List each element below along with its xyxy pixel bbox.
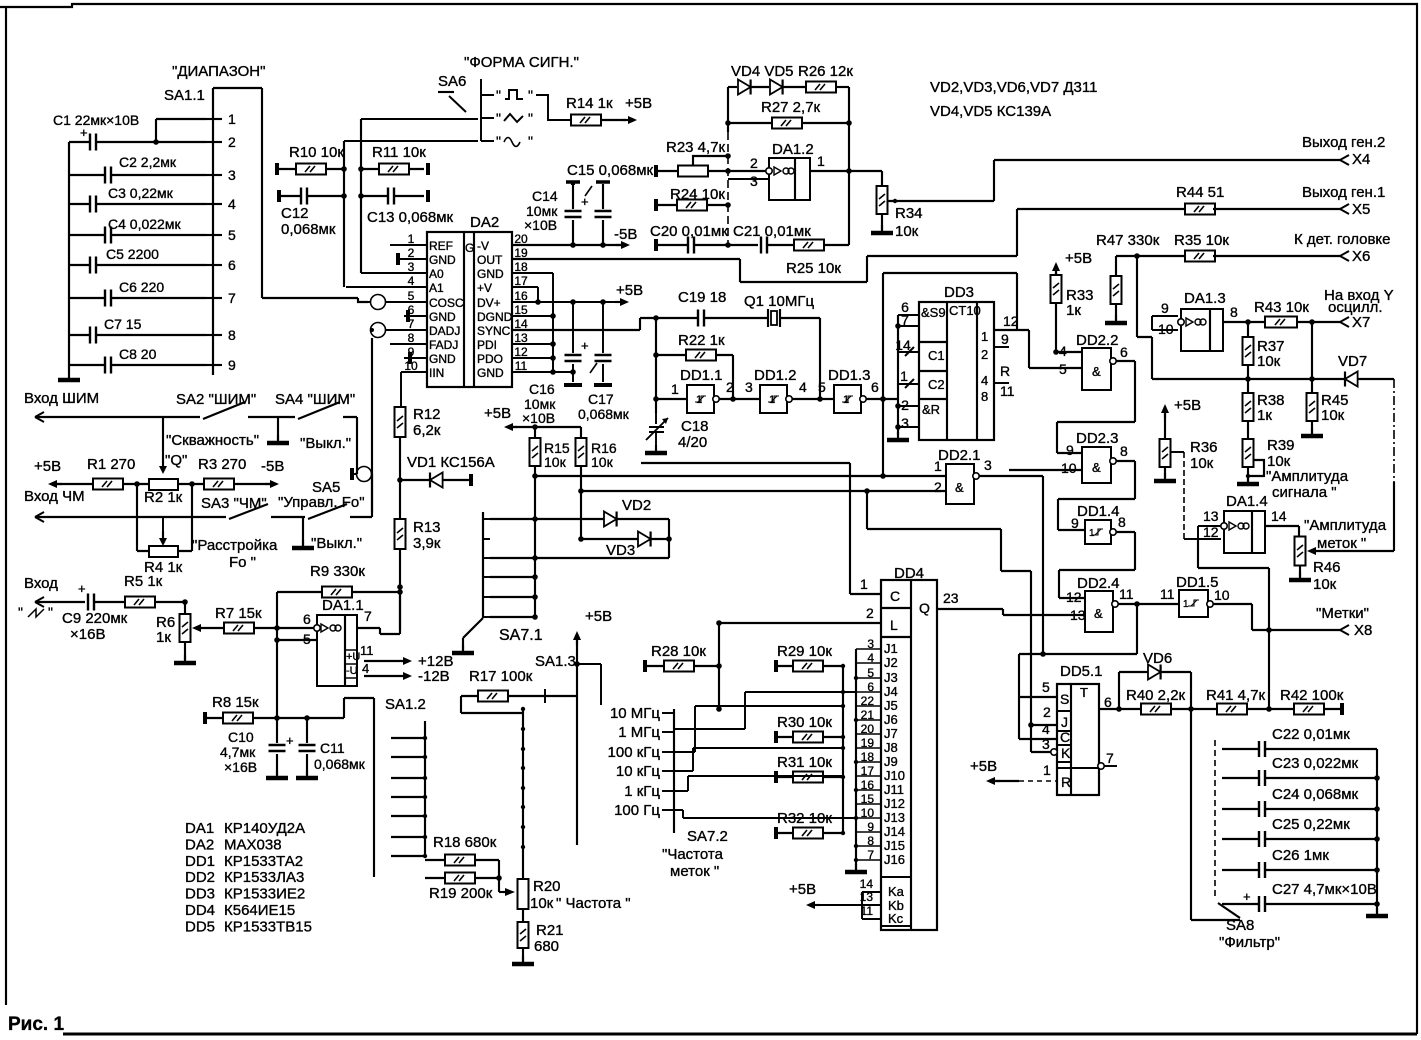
svg-text:сигнала ": сигнала " [1272, 484, 1337, 501]
svg-text:9: 9 [1001, 331, 1009, 347]
svg-text:10к: 10к [1321, 407, 1345, 424]
svg-text:4: 4 [981, 373, 988, 388]
svg-text:0,068мк: 0,068мк [281, 221, 336, 238]
svg-text:R30 10к: R30 10к [777, 714, 832, 731]
svg-text:680: 680 [534, 938, 559, 955]
wire OUT to X5 [512, 209, 1186, 282]
svg-text:10: 10 [1214, 587, 1230, 603]
svg-text:C2 2,2мк: C2 2,2мк [119, 154, 177, 170]
switch SA1.3 throw [577, 664, 601, 705]
svg-text:SA8: SA8 [1226, 917, 1254, 934]
svg-text:A0: A0 [429, 267, 444, 281]
svg-text:"Выкл.": "Выкл." [300, 435, 351, 452]
svg-text:+: + [286, 733, 294, 748]
svg-text:DD1.5: DD1.5 [1176, 574, 1219, 591]
svg-text:S: S [1060, 691, 1069, 707]
svg-text:": " [48, 604, 53, 620]
wire R18/R19 junction to R20 [498, 860, 500, 892]
svg-text:DD2.3: DD2.3 [1076, 430, 1119, 447]
svg-text:DA2: DA2 [185, 836, 214, 853]
wire rows SA7.1 [490, 577, 535, 617]
svg-text:С26 1мк: С26 1мк [1272, 847, 1329, 864]
svg-text:9: 9 [1161, 300, 1169, 316]
svg-text:+V: +V [477, 281, 492, 295]
svg-text:"Метки": "Метки" [1316, 605, 1369, 622]
svg-text:12: 12 [514, 345, 528, 359]
svg-text:1: 1 [843, 394, 849, 406]
svg-text:J8: J8 [884, 740, 898, 755]
svg-text:-5В: -5В [261, 458, 284, 475]
svg-text:SA6: SA6 [438, 73, 466, 90]
jumper DADJ [371, 323, 386, 338]
svg-text:"Расстройка: "Расстройка [192, 537, 278, 554]
DD4 pin 2 L [719, 622, 881, 624]
svg-text:Kc: Kc [888, 911, 904, 926]
svg-text:8: 8 [981, 389, 988, 404]
svg-text:+U: +U [346, 651, 360, 663]
svg-text:SA4 "ШИМ": SA4 "ШИМ" [275, 391, 355, 408]
DD4 K outputs [881, 877, 911, 926]
wire R2/R4 left [137, 484, 149, 551]
SA1.1 contact 8 [206, 334, 222, 336]
svg-text:1: 1 [1183, 599, 1189, 610]
svg-text:VD3: VD3 [606, 542, 635, 559]
ground middle [277, 417, 279, 440]
ground bar pin2 [396, 253, 400, 265]
svg-text:SA2 "ШИМ": SA2 "ШИМ" [176, 391, 256, 408]
svg-text:OUT: OUT [477, 253, 503, 267]
svg-text:J14: J14 [884, 824, 905, 839]
svg-text:R11 10к: R11 10к [372, 144, 426, 161]
svg-text:R8 15к: R8 15к [212, 694, 259, 711]
svg-text:6: 6 [303, 611, 311, 627]
svg-text:L: L [890, 617, 898, 633]
svg-text:VD1 КС156А: VD1 КС156А [407, 454, 495, 471]
svg-text:10к: 10к [895, 223, 919, 240]
svg-text:DA1.2: DA1.2 [772, 141, 814, 158]
potentiometer R46 10к [1295, 537, 1306, 566]
svg-text:J5: J5 [884, 698, 898, 713]
wire R11/C13 bus to A0 [360, 119, 362, 273]
svg-text:7: 7 [364, 608, 372, 624]
wire IIN to R12 [401, 372, 427, 407]
svg-text:13: 13 [1203, 508, 1219, 524]
svg-text:R29 10к: R29 10к [777, 643, 832, 660]
wire DADJ to SA5 [371, 338, 373, 512]
svg-text:2: 2 [981, 347, 988, 362]
svg-text:10к: 10к [1190, 455, 1214, 472]
wire -V rail [512, 244, 622, 246]
svg-text:VD7: VD7 [1338, 353, 1367, 370]
wire branch to DD5.1 J/K [867, 491, 1031, 725]
svg-text:10к: 10к [530, 895, 554, 912]
svg-text:R39: R39 [1267, 437, 1295, 454]
wire DD3 out to DD2.2 [1017, 330, 1082, 368]
power +5В [615, 301, 625, 303]
svg-text:10к: 10к [1257, 353, 1281, 370]
SA1.1 contact 2 [206, 141, 222, 143]
svg-text:Выход ген.1: Выход ген.1 [1302, 184, 1385, 201]
svg-text:CT10: CT10 [949, 303, 981, 318]
svg-text:DD1.1: DD1.1 [680, 367, 723, 384]
svg-text:C2: C2 [928, 377, 945, 392]
wire row 558 [490, 557, 669, 559]
wire FADJ [390, 343, 427, 345]
svg-text:-12В: -12В [418, 668, 450, 685]
svg-text:"ДИАПАЗОН": "ДИАПАЗОН" [172, 63, 265, 80]
wire DA1.1 output [357, 592, 400, 634]
svg-text:"Выкл.": "Выкл." [311, 535, 362, 552]
svg-text:GND: GND [429, 253, 456, 267]
wire C18 row to DD4 C [641, 463, 850, 594]
wire VD4/R26 loop [728, 87, 849, 171]
svg-text:R23 4,7к: R23 4,7к [666, 139, 726, 156]
svg-text:4: 4 [362, 661, 369, 676]
power -5В [265, 483, 275, 485]
wire J bus 2 [855, 649, 857, 869]
diode VD5 [751, 86, 769, 88]
svg-text:K: K [1061, 745, 1071, 761]
svg-text:&: & [955, 480, 964, 495]
svg-text:К дет. головке: К дет. головке [1294, 231, 1391, 248]
svg-text:C7 15: C7 15 [104, 316, 142, 332]
SA1.1 contact 4 [206, 203, 222, 205]
wire to X4 [895, 160, 1340, 201]
svg-text:REF: REF [429, 239, 453, 253]
svg-text:С25 0,22мк: С25 0,22мк [1272, 816, 1350, 833]
wire freq row to J8 [674, 748, 843, 771]
svg-text:6,2к: 6,2к [413, 422, 441, 439]
svg-text:GND: GND [429, 310, 456, 324]
svg-text:&: & [1094, 606, 1103, 621]
svg-text:2: 2 [726, 379, 734, 395]
wire freq row to J10 [674, 776, 843, 791]
wire select line A1 [344, 140, 478, 142]
svg-text:1к: 1к [1066, 302, 1081, 319]
svg-text:R1 270: R1 270 [87, 456, 135, 473]
svg-text:+5В: +5В [1174, 397, 1201, 414]
svg-text:Выход ген.2: Выход ген.2 [1302, 134, 1385, 151]
svg-text:Вход: Вход [24, 575, 58, 592]
svg-text:3: 3 [745, 379, 753, 395]
svg-text:0,068мк: 0,068мк [314, 756, 366, 772]
svg-text:1: 1 [769, 394, 775, 406]
wire freq row to J13 [674, 810, 856, 818]
wire freq row to J4 [674, 692, 856, 729]
svg-text:R35 10к: R35 10к [1174, 232, 1229, 249]
svg-text:C10: C10 [228, 729, 254, 745]
svg-text:2: 2 [866, 605, 874, 621]
wire DA1.4 input to marks node [1198, 539, 1269, 709]
svg-text:C17: C17 [588, 391, 614, 407]
ground bar pin6 [406, 310, 410, 322]
wire DD2.3 out loop [1058, 461, 1135, 530]
svg-text:GND: GND [429, 352, 456, 366]
svg-text:"Амплитуда: "Амплитуда [1266, 468, 1349, 485]
svg-text:DA1.1: DA1.1 [322, 597, 364, 614]
svg-text:DA1: DA1 [185, 820, 214, 837]
svg-text:7: 7 [1106, 750, 1114, 766]
svg-text:+5В: +5В [585, 608, 612, 625]
wire R10/C12 bus to A1 [343, 141, 345, 287]
wire SYNC to divider [512, 318, 656, 330]
svg-text:X6: X6 [1352, 248, 1370, 265]
svg-text:+5В: +5В [625, 95, 652, 112]
svg-text:": " [496, 87, 501, 103]
svg-text:12: 12 [1203, 524, 1219, 540]
svg-text:4/20: 4/20 [678, 434, 707, 451]
svg-text:C5 2200: C5 2200 [106, 246, 159, 262]
svg-text:4,7мк: 4,7мк [220, 744, 256, 760]
svg-text:1 МГц: 1 МГц [618, 724, 660, 741]
svg-text:R27 2,7к: R27 2,7к [761, 99, 821, 116]
svg-text:R: R [1061, 774, 1071, 790]
SA1.1 contact 6 [206, 264, 222, 266]
svg-text:Вход ЧМ: Вход ЧМ [24, 488, 85, 505]
power +5В R pin [990, 780, 1000, 782]
svg-text:4: 4 [799, 379, 807, 395]
svg-text:R44 51: R44 51 [1176, 184, 1224, 201]
svg-text:5: 5 [818, 379, 826, 395]
svg-text:4: 4 [228, 196, 236, 212]
svg-text:10к: 10к [544, 454, 567, 470]
svg-text:1: 1 [817, 153, 825, 169]
DD4 pin 1 C [850, 593, 881, 595]
svg-text:+5В: +5В [1065, 250, 1092, 267]
svg-text:R34: R34 [895, 205, 923, 222]
power +5В [623, 119, 633, 121]
svg-text:11: 11 [1160, 586, 1175, 602]
svg-text:"ФОРМА СИГН.": "ФОРМА СИГН." [464, 54, 579, 71]
svg-text:1: 1 [981, 329, 988, 344]
SA1.1 contact 9 [206, 364, 222, 366]
wire R28 vertical [718, 623, 720, 709]
svg-text:R20: R20 [533, 878, 561, 895]
svg-text:С24 0,068мк: С24 0,068мк [1272, 786, 1359, 803]
svg-text:J: J [1061, 714, 1068, 730]
svg-text:19: 19 [514, 246, 528, 260]
wire R2/R4 right [178, 484, 192, 551]
svg-text:меток ": меток " [1317, 535, 1366, 552]
svg-text:R14 1к: R14 1к [566, 95, 613, 112]
svg-text:16: 16 [514, 289, 528, 303]
svg-text:R21: R21 [536, 922, 564, 939]
power -5В [616, 244, 626, 246]
wire R16 long line [578, 488, 584, 494]
svg-text:DA2: DA2 [470, 214, 499, 231]
svg-text:-V: -V [477, 239, 489, 253]
svg-text:1: 1 [900, 368, 908, 384]
svg-text:3,9к: 3,9к [413, 535, 441, 552]
svg-text:": " [528, 87, 533, 103]
svg-text:С22 0,01мк: С22 0,01мк [1272, 726, 1350, 743]
svg-text:1: 1 [696, 394, 702, 406]
svg-text:R22 1к: R22 1к [678, 332, 725, 349]
svg-text:18: 18 [514, 260, 528, 274]
svg-text:14: 14 [895, 337, 911, 353]
DD3 output pins [994, 329, 1017, 331]
svg-text:J10: J10 [884, 768, 905, 783]
wire waveform to R14 [536, 95, 571, 120]
svg-text:FADJ: FADJ [429, 338, 458, 352]
svg-text:J3: J3 [884, 670, 898, 685]
wire S input from DD2.4 [1019, 654, 1137, 739]
svg-text:10к: 10к [1313, 576, 1337, 593]
svg-text:1: 1 [934, 458, 942, 474]
svg-text:R31 10к: R31 10к [777, 754, 832, 771]
left capacitor bus [68, 142, 70, 372]
svg-text:J12: J12 [884, 796, 905, 811]
svg-text:R43 10к: R43 10к [1254, 299, 1309, 316]
svg-text:C4 0,022мк: C4 0,022мк [108, 216, 181, 232]
svg-text:A1: A1 [429, 281, 444, 295]
DA1.1 supply pins [345, 650, 357, 678]
svg-text:J1: J1 [884, 641, 898, 656]
svg-text:-U: -U [346, 665, 358, 677]
svg-text:1: 1 [408, 232, 415, 246]
svg-text:5: 5 [228, 227, 236, 243]
svg-text:J15: J15 [884, 838, 905, 853]
svg-text:0,068мк: 0,068мк [578, 406, 630, 422]
svg-text:100 Гц: 100 Гц [614, 802, 660, 819]
svg-text:4: 4 [408, 274, 415, 288]
svg-text:+: + [581, 338, 589, 353]
svg-text:&R: &R [922, 402, 940, 417]
svg-text:VD2: VD2 [622, 497, 651, 514]
bottom rule [63, 1033, 1417, 1036]
connector X8 [1340, 625, 1349, 635]
svg-text:R42 100к: R42 100к [1280, 687, 1344, 704]
svg-text:&S9: &S9 [921, 305, 946, 320]
svg-text:10к: 10к [591, 454, 614, 470]
svg-text:×16В: ×16В [70, 626, 105, 643]
power +5В rail [508, 426, 518, 428]
wire freq row to J5 [674, 706, 843, 752]
svg-text:К564ИЕ15: К564ИЕ15 [224, 902, 295, 919]
resistor R47 330к [1115, 256, 1117, 276]
svg-text:": " [496, 110, 501, 126]
svg-text:C12: C12 [281, 205, 309, 222]
svg-text:8: 8 [1118, 514, 1126, 530]
SA1.1 contact 5 [206, 234, 222, 236]
svg-text:17: 17 [514, 274, 528, 288]
svg-text:SA1.1: SA1.1 [164, 87, 205, 104]
svg-text:R40 2,2к: R40 2,2к [1126, 687, 1186, 704]
svg-text:13: 13 [514, 331, 528, 345]
svg-text:КР1533ТА2: КР1533ТА2 [224, 853, 303, 870]
wire A1 [346, 286, 427, 288]
ground J bus [855, 864, 857, 872]
svg-text:8: 8 [408, 331, 415, 345]
svg-text:VD4 VD5: VD4 VD5 [731, 63, 794, 80]
svg-text:SA1.3: SA1.3 [535, 653, 576, 670]
DD3 feedback loop wire [883, 273, 1017, 476]
jumper SA5 [350, 468, 354, 480]
svg-text:+: + [581, 194, 589, 209]
svg-text:15: 15 [514, 303, 528, 317]
svg-text:Ka: Ka [888, 884, 905, 899]
svg-text:DD5.1: DD5.1 [1060, 663, 1103, 680]
svg-text:R: R [1000, 363, 1010, 379]
power +5В SA1.3 [576, 635, 578, 645]
svg-text:DD5: DD5 [185, 918, 215, 935]
svg-text:6: 6 [1120, 344, 1128, 360]
svg-text:+: + [80, 125, 88, 140]
svg-text:PDI: PDI [477, 338, 497, 352]
svg-text:8: 8 [228, 327, 236, 343]
svg-text:SA1.2: SA1.2 [385, 696, 426, 713]
svg-text:R19 200к: R19 200к [429, 885, 493, 902]
svg-text:2: 2 [1043, 704, 1051, 720]
svg-text:7: 7 [901, 312, 909, 328]
svg-text:DGND: DGND [477, 310, 513, 324]
connector X4 [1340, 155, 1349, 165]
svg-text:DD1.4: DD1.4 [1077, 503, 1120, 520]
svg-text:С27 4,7мк×10В: С27 4,7мк×10В [1272, 881, 1377, 898]
svg-text:R5 1к: R5 1к [124, 573, 163, 590]
svg-text:X4: X4 [1352, 151, 1370, 168]
svg-text:DD3: DD3 [944, 284, 974, 301]
svg-text:C6 220: C6 220 [119, 279, 164, 295]
svg-text:МАХ038: МАХ038 [224, 836, 282, 853]
svg-text:C1 22мк×10В: C1 22мк×10В [53, 112, 139, 128]
svg-text:14: 14 [860, 877, 874, 891]
svg-text:C14: C14 [532, 188, 558, 204]
svg-text:1: 1 [671, 381, 679, 397]
svg-text:": " [528, 110, 533, 126]
svg-text:КР1533ИЕ2: КР1533ИЕ2 [224, 886, 305, 903]
svg-text:11: 11 [1000, 383, 1015, 399]
svg-text:23: 23 [943, 590, 959, 606]
svg-text:R41 4,7к: R41 4,7к [1206, 687, 1266, 704]
svg-text:R17 100к: R17 100к [469, 668, 533, 685]
svg-text:КР1533ТВ15: КР1533ТВ15 [224, 918, 312, 935]
svg-text:1: 1 [1043, 762, 1051, 778]
svg-text:R47 330к: R47 330к [1096, 232, 1160, 249]
ground bar pin9 [408, 352, 412, 364]
svg-text:C21 0,01мк: C21 0,01мк [733, 223, 811, 240]
svg-text:Fо ": Fо " [229, 554, 256, 571]
power +5В R33 [1055, 266, 1057, 276]
filter right bus [1376, 749, 1378, 913]
svg-text:R36: R36 [1190, 439, 1218, 456]
svg-text:J16: J16 [884, 852, 905, 867]
svg-text:"Амплитуда: "Амплитуда [1304, 517, 1387, 534]
svg-text:T: T [1080, 685, 1088, 700]
connector X5 [1340, 204, 1349, 214]
svg-text:10: 10 [1158, 321, 1174, 337]
svg-text:" Частота ": " Частота " [556, 895, 631, 912]
svg-text:"Частота: "Частота [662, 846, 724, 863]
svg-text:VD2,VD3,VD6,VD7 Д311: VD2,VD3,VD6,VD7 Д311 [930, 79, 1097, 96]
svg-text:DD4: DD4 [185, 902, 215, 919]
svg-text:Q1 10МГц: Q1 10МГц [744, 293, 814, 310]
svg-text:9: 9 [228, 357, 236, 373]
jumper COSC [371, 295, 386, 310]
svg-text:R25 10к: R25 10к [786, 260, 841, 277]
svg-text:2: 2 [408, 246, 415, 260]
svg-text:-5В: -5В [614, 226, 637, 243]
svg-text:C1: C1 [928, 348, 945, 363]
svg-text:9: 9 [1066, 442, 1074, 458]
svg-text:VD4,VD5 КС139А: VD4,VD5 КС139А [930, 103, 1051, 120]
svg-text:J4: J4 [884, 684, 898, 699]
svg-text:20: 20 [514, 232, 528, 246]
wire R36 tap to DA1.4 [1170, 451, 1184, 453]
svg-text:3: 3 [228, 167, 236, 183]
svg-text:C8 20: C8 20 [119, 346, 157, 362]
svg-text:R10 10к: R10 10к [289, 144, 344, 161]
